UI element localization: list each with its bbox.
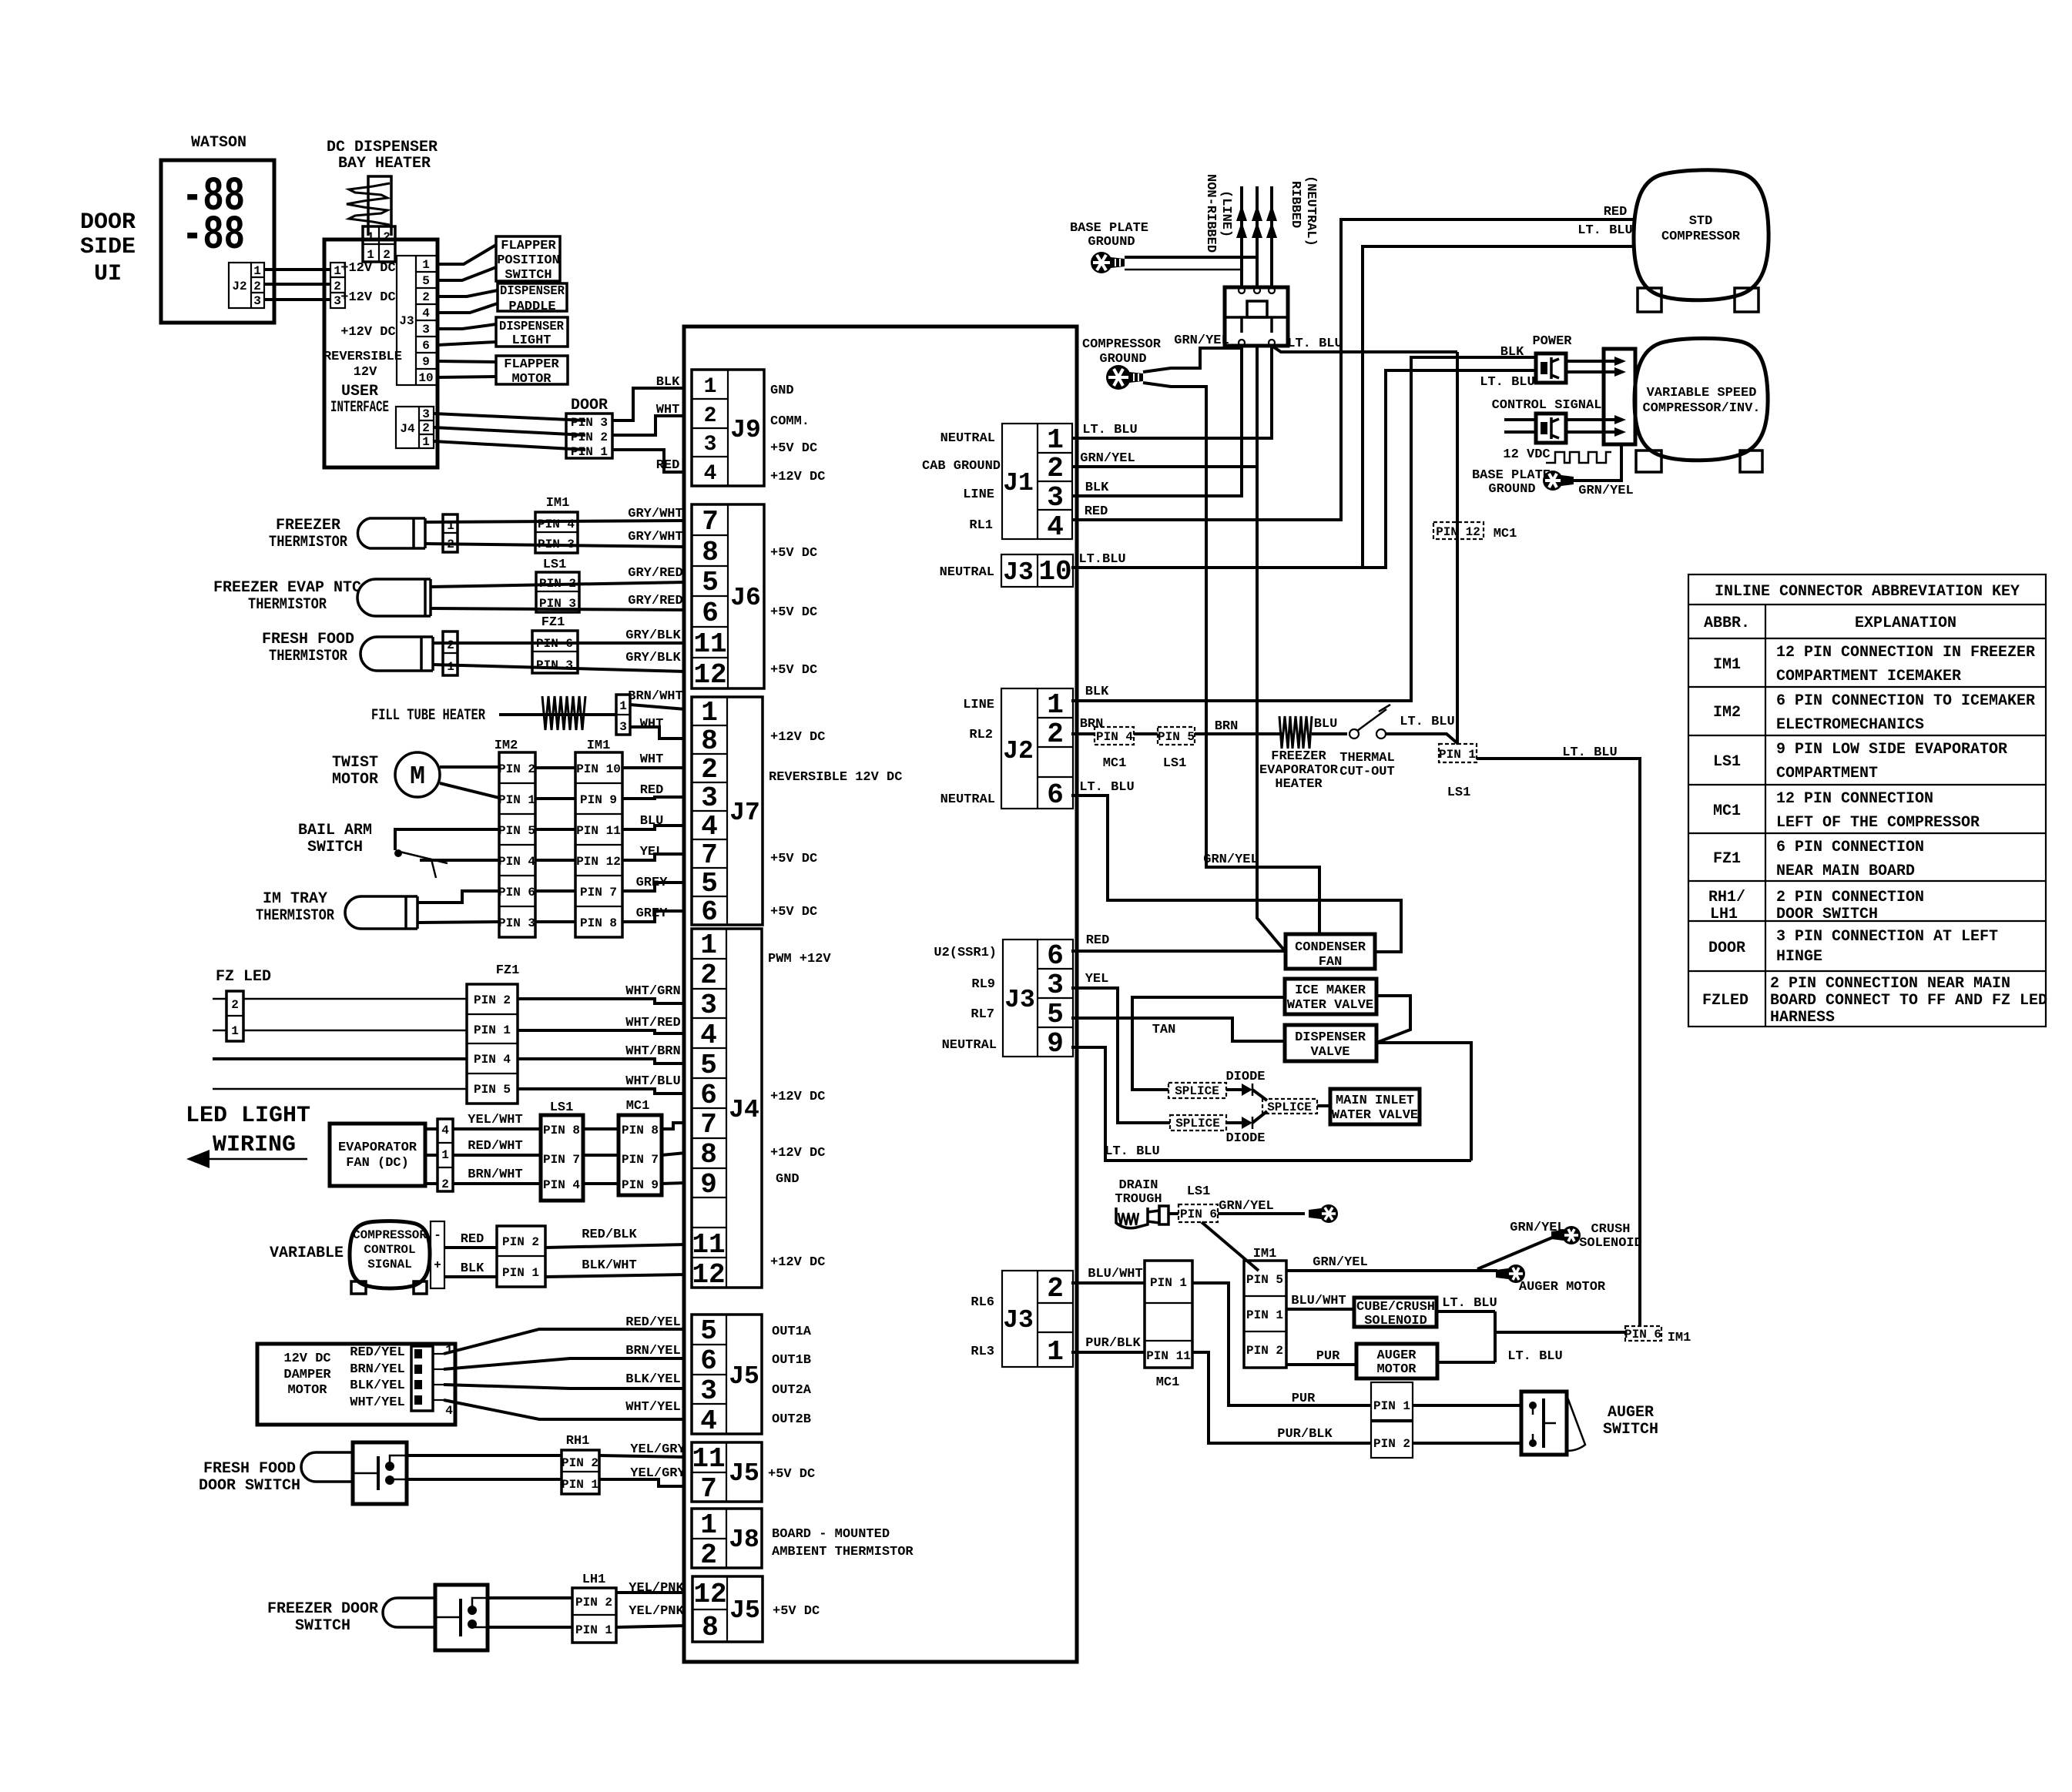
connector UI left 1-2-3 bbox=[330, 263, 345, 308]
wire BLK/WHT to J4 pin12 bbox=[545, 1274, 686, 1277]
flapper motor bbox=[496, 356, 568, 387]
wire PIN2 to auger switch bbox=[1413, 1442, 1521, 1445]
svg-text:12V DC: 12V DC bbox=[283, 1352, 330, 1366]
wire crush solenoid diagonal bbox=[1477, 1236, 1556, 1269]
svg-text:RED/BLK: RED/BLK bbox=[582, 1228, 637, 1242]
wire diode1 to splice mid bbox=[1252, 1090, 1267, 1100]
svg-text:9 PIN LOW SIDE EVAPORATOR: 9 PIN LOW SIDE EVAPORATOR bbox=[1776, 741, 2007, 759]
svg-text:FREEZER DOOR: FREEZER DOOR bbox=[267, 1600, 378, 1618]
wire YEL IM1 to J7 bbox=[622, 854, 686, 860]
svg-text:PIN 1: PIN 1 bbox=[1439, 748, 1476, 762]
diode 2 bbox=[1226, 1117, 1252, 1129]
connector -/+ bbox=[431, 1221, 444, 1288]
svg-text:DOOR: DOOR bbox=[80, 209, 136, 236]
svg-text:RL3: RL3 bbox=[971, 1345, 994, 1359]
svg-text:IM1: IM1 bbox=[587, 739, 611, 753]
diode 1 bbox=[1226, 1084, 1252, 1096]
wire IM tray to IM2 PIN3 bbox=[417, 922, 499, 923]
wire J3 pin10 to flapper motor bbox=[438, 377, 496, 377]
wire J3 pin3 to dispenser light bbox=[438, 324, 496, 329]
svg-text:RL7: RL7 bbox=[971, 1007, 994, 1022]
svg-text:11: 11 bbox=[693, 628, 726, 660]
svg-text:PIN 1: PIN 1 bbox=[1373, 1399, 1410, 1413]
svg-text:PUR/BLK: PUR/BLK bbox=[1085, 1336, 1141, 1351]
svg-text:7: 7 bbox=[701, 839, 718, 871]
connector MC1 PIN1/PIN11 bbox=[1145, 1261, 1192, 1368]
svg-text:2: 2 bbox=[701, 754, 718, 785]
svg-text:FRESH FOOD: FRESH FOOD bbox=[203, 1460, 296, 1478]
wire dispenser valve to right bus bbox=[1376, 1043, 1471, 1161]
wire power relay to inverter LT BLU bbox=[1566, 370, 1614, 373]
svg-text:+12V DC: +12V DC bbox=[340, 261, 395, 276]
svg-text:1: 1 bbox=[1047, 689, 1064, 721]
svg-text:PIN 7: PIN 7 bbox=[543, 1153, 580, 1167]
svg-text:PWM +12V: PWM +12V bbox=[768, 952, 831, 966]
svg-text:IM1: IM1 bbox=[1668, 1331, 1691, 1345]
svg-text:DIODE: DIODE bbox=[1225, 1070, 1265, 1084]
svg-text:WATER VALVE: WATER VALVE bbox=[1287, 998, 1373, 1013]
svg-text:SWITCH: SWITCH bbox=[307, 839, 363, 856]
svg-text:UI: UI bbox=[94, 261, 122, 287]
wire twist motor to IM2 PIN2 bbox=[440, 765, 499, 769]
svg-text:PIN 2: PIN 2 bbox=[539, 577, 576, 591]
svg-text:THERMISTOR: THERMISTOR bbox=[269, 534, 347, 551]
wire GRN/YEL trunk to J1 pin2 bbox=[1077, 465, 1257, 468]
ice maker water valve bbox=[1285, 979, 1376, 1014]
splice 2 bbox=[1170, 1115, 1226, 1130]
connector FZ LED 2-1 bbox=[226, 991, 243, 1041]
svg-text:RED/YEL: RED/YEL bbox=[625, 1315, 680, 1330]
control signal relay bbox=[1536, 414, 1566, 443]
svg-text:THERMISTOR: THERMISTOR bbox=[269, 648, 347, 665]
svg-text:2: 2 bbox=[1047, 718, 1064, 750]
svg-text:NON-RIBBED: NON-RIBBED bbox=[1203, 174, 1218, 253]
svg-text:PIN 2: PIN 2 bbox=[562, 1456, 598, 1470]
svg-text:TAN: TAN bbox=[1152, 1023, 1176, 1037]
svg-text:EVAPORATOR: EVAPORATOR bbox=[338, 1141, 417, 1155]
svg-text:+12V DC: +12V DC bbox=[770, 730, 825, 745]
svg-text:J5: J5 bbox=[729, 1362, 759, 1391]
svg-text:J3: J3 bbox=[1003, 558, 1034, 587]
connector PIN2/PIN1 (control signal) bbox=[497, 1226, 545, 1287]
svg-text:PADDLE: PADDLE bbox=[508, 300, 555, 314]
svg-text:CONDENSER: CONDENSER bbox=[1295, 940, 1366, 955]
svg-text:PIN 1: PIN 1 bbox=[1246, 1308, 1283, 1322]
wire twist motor to IM2 PIN1 bbox=[440, 783, 499, 798]
svg-text:ELECTROMECHANICS: ELECTROMECHANICS bbox=[1776, 716, 1924, 734]
svg-text:BOARD CONNECT TO FF AND FZ LED: BOARD CONNECT TO FF AND FZ LED bbox=[1770, 992, 2047, 1010]
wire J2 pin3 to UI bbox=[264, 298, 330, 301]
connector PIN 5 (LS1) bbox=[1158, 727, 1195, 745]
svg-text:3: 3 bbox=[422, 407, 430, 421]
svg-text:3: 3 bbox=[700, 1375, 717, 1407]
wire WHT DOOR PIN2 to J9 pin2 bbox=[612, 416, 686, 435]
svg-text:LT. BLU: LT. BLU bbox=[1480, 375, 1534, 390]
svg-text:1: 1 bbox=[367, 230, 374, 244]
svg-text:1: 1 bbox=[447, 519, 454, 533]
svg-text:J9: J9 bbox=[730, 416, 761, 444]
svg-text:BLU: BLU bbox=[640, 814, 664, 829]
svg-text:5: 5 bbox=[700, 1315, 717, 1347]
wire WHT/YEL to J5 pin4 bbox=[444, 1400, 686, 1419]
svg-text:GRY/WHT: GRY/WHT bbox=[628, 530, 682, 544]
compressor control feet bbox=[351, 1281, 366, 1294]
svg-text:(LINE): (LINE) bbox=[1219, 190, 1233, 237]
wire J3 pin2 to dispenser paddle bbox=[438, 290, 498, 296]
svg-text:FAN: FAN bbox=[1319, 955, 1343, 970]
svg-text:PIN 2: PIN 2 bbox=[1246, 1344, 1283, 1358]
connector J2 (Watson board) bbox=[229, 263, 264, 308]
wire power relay to inverter BLK bbox=[1566, 360, 1614, 363]
svg-text:+5V DC: +5V DC bbox=[770, 905, 817, 919]
wire GRN/YEL base plate to inverter bbox=[1574, 444, 1621, 481]
svg-text:ABBR.: ABBR. bbox=[1704, 615, 1750, 632]
svg-text:IM TRAY: IM TRAY bbox=[263, 890, 327, 908]
svg-text:J8: J8 bbox=[729, 1526, 759, 1554]
svg-text:PIN 6: PIN 6 bbox=[1180, 1208, 1217, 1221]
svg-text:DIODE: DIODE bbox=[1225, 1131, 1265, 1146]
wire LH1 PIN1 to J5 pin8 bbox=[616, 1626, 686, 1627]
svg-text:WHT/GRN: WHT/GRN bbox=[625, 984, 680, 999]
svg-text:J6: J6 bbox=[730, 584, 761, 612]
svg-text:IM1: IM1 bbox=[546, 496, 570, 511]
wire bus to IM1 PIN6 bbox=[1495, 1331, 1625, 1334]
thermal cut-out bbox=[1349, 705, 1390, 739]
svg-text:GROUND: GROUND bbox=[1099, 352, 1146, 367]
svg-text:RED: RED bbox=[1604, 205, 1628, 219]
connector J1 bbox=[1002, 424, 1072, 543]
svg-text:SIGNAL: SIGNAL bbox=[367, 1258, 412, 1271]
svg-text:4: 4 bbox=[422, 306, 430, 320]
svg-text:RIBBED: RIBBED bbox=[1288, 181, 1303, 228]
svg-text:FRESH FOOD: FRESH FOOD bbox=[262, 631, 354, 648]
svg-text:2: 2 bbox=[447, 538, 454, 551]
svg-text:9: 9 bbox=[422, 355, 430, 369]
svg-text:LT. BLU: LT. BLU bbox=[1400, 715, 1454, 729]
svg-text:9: 9 bbox=[700, 1169, 717, 1201]
wire GRY/WHT to J6 pin7 bbox=[425, 521, 686, 522]
svg-text:LS1: LS1 bbox=[1187, 1184, 1211, 1199]
svg-text:BRN/WHT: BRN/WHT bbox=[468, 1167, 522, 1182]
svg-text:5: 5 bbox=[422, 274, 430, 288]
svg-text:NEUTRAL: NEUTRAL bbox=[940, 431, 995, 446]
svg-text:+5V DC: +5V DC bbox=[773, 1604, 820, 1619]
wire RED/BLK to J4 pin11 bbox=[545, 1244, 686, 1248]
svg-text:2: 2 bbox=[231, 998, 239, 1012]
wire PUR IM1 PIN2 to auger motor bbox=[1286, 1363, 1356, 1366]
wire LS1 PIN8 to MC1 PIN8 bbox=[583, 1127, 619, 1130]
svg-text:WHT/BLU: WHT/BLU bbox=[625, 1074, 680, 1089]
wire BLU IM1 to J7 bbox=[622, 826, 686, 829]
svg-text:RL1: RL1 bbox=[969, 518, 993, 533]
wire control signal stub1 bbox=[1504, 418, 1536, 421]
svg-text:10: 10 bbox=[1038, 556, 1071, 588]
wire LT. BLU LS1 PIN1 to IM1 PIN6 bbox=[1477, 759, 1640, 1326]
svg-text:DOOR: DOOR bbox=[1708, 940, 1745, 957]
connector DOOR PIN3/PIN2/PIN1 bbox=[566, 414, 612, 459]
svg-text:6: 6 bbox=[701, 896, 718, 928]
wire MC1 PIN11 to PIN2 path bbox=[1192, 1352, 1371, 1443]
svg-text:THERMAL: THERMAL bbox=[1339, 751, 1394, 765]
svg-text:PIN 5: PIN 5 bbox=[1246, 1273, 1283, 1287]
svg-text:YEL: YEL bbox=[1085, 972, 1109, 986]
svg-text:FZ1: FZ1 bbox=[496, 963, 520, 978]
svg-text:2: 2 bbox=[383, 248, 391, 262]
svg-text:RH1: RH1 bbox=[566, 1434, 590, 1449]
connector PIN 2 (auger) bbox=[1371, 1422, 1413, 1458]
svg-text:WHT/YEL: WHT/YEL bbox=[625, 1400, 680, 1415]
wire FZ LED pin1 stub bbox=[213, 1030, 226, 1032]
wire LT.BLU auger motor to bus bbox=[1437, 1361, 1495, 1364]
svg-text:+5V DC: +5V DC bbox=[770, 605, 817, 620]
svg-text:RH1/: RH1/ bbox=[1708, 889, 1745, 906]
wire YEL/WHT fan to LS1 bbox=[453, 1127, 541, 1130]
wire J3 pin4 to dispenser paddle bbox=[438, 303, 498, 313]
svg-text:BLK: BLK bbox=[461, 1261, 484, 1276]
svg-text:12: 12 bbox=[692, 1259, 725, 1291]
svg-text:M: M bbox=[410, 762, 425, 791]
power cord line 1 bbox=[1240, 186, 1243, 287]
svg-text:FZLED: FZLED bbox=[1702, 992, 1748, 1010]
svg-text:BLK: BLK bbox=[656, 375, 680, 390]
svg-text:1: 1 bbox=[1047, 424, 1064, 456]
svg-text:+5V DC: +5V DC bbox=[770, 852, 817, 866]
svg-text:AUGER: AUGER bbox=[1376, 1348, 1417, 1363]
svg-text:RED: RED bbox=[461, 1232, 484, 1247]
svg-text:VARIABLE SPEED: VARIABLE SPEED bbox=[1647, 386, 1757, 400]
svg-text:HINGE: HINGE bbox=[1776, 948, 1822, 966]
svg-text:MAIN INLET: MAIN INLET bbox=[1336, 1094, 1414, 1108]
svg-text:CAB GROUND: CAB GROUND bbox=[922, 459, 1001, 474]
svg-text:WHT/RED: WHT/RED bbox=[625, 1016, 680, 1030]
wire YEL/GRY to J5 pin7 bbox=[407, 1478, 562, 1481]
user interface board bbox=[324, 239, 438, 467]
wire YEL/GRY to J5 pin11 bbox=[407, 1454, 562, 1457]
wire BLK/YEL to J5 pin3 bbox=[444, 1385, 686, 1388]
wire RED/YEL to J5 pin5 bbox=[444, 1329, 686, 1354]
svg-text:PIN 1: PIN 1 bbox=[571, 445, 608, 459]
svg-text:SWITCH: SWITCH bbox=[1603, 1421, 1658, 1439]
svg-text:LS1: LS1 bbox=[1713, 753, 1741, 771]
svg-text:FREEZER: FREEZER bbox=[1271, 749, 1326, 764]
svg-text:DISPENSER: DISPENSER bbox=[499, 320, 565, 334]
svg-text:3 PIN CONNECTION AT LEFT: 3 PIN CONNECTION AT LEFT bbox=[1776, 928, 1998, 946]
fresh food door switch bbox=[353, 1442, 407, 1504]
svg-text:BLK/WHT: BLK/WHT bbox=[582, 1258, 636, 1273]
power cord line 3 bbox=[1270, 186, 1273, 287]
svg-text:DOOR SWITCH: DOOR SWITCH bbox=[199, 1477, 300, 1495]
svg-text:WATSON: WATSON bbox=[191, 134, 246, 152]
svg-text:1: 1 bbox=[422, 435, 430, 449]
svg-text:LS1: LS1 bbox=[550, 1100, 574, 1115]
wire trough to PIN6 bbox=[1168, 1212, 1178, 1215]
inverter connector bbox=[1604, 349, 1635, 444]
wire IM2 row2 to IM1 bbox=[535, 797, 575, 800]
STD compressor bbox=[1634, 170, 1769, 300]
svg-text:MC1: MC1 bbox=[626, 1099, 650, 1114]
svg-text:VALVE: VALVE bbox=[1310, 1045, 1349, 1060]
svg-text:SPLICE: SPLICE bbox=[1267, 1100, 1312, 1114]
svg-text:2: 2 bbox=[441, 1177, 449, 1191]
svg-text:BASE PLATE: BASE PLATE bbox=[1472, 468, 1551, 483]
crush solenoid ground lug bbox=[1551, 1226, 1581, 1244]
svg-text:DC DISPENSER: DC DISPENSER bbox=[327, 139, 438, 156]
twist motor M bbox=[395, 752, 440, 797]
wire RED/WHT fan to LS1 bbox=[453, 1154, 541, 1157]
svg-text:BLU/WHT: BLU/WHT bbox=[1088, 1267, 1142, 1281]
wire TAN J3 pin5 to dispenser valve bbox=[1077, 1018, 1285, 1041]
svg-text:PIN 3: PIN 3 bbox=[539, 597, 576, 611]
svg-text:GRY/RED: GRY/RED bbox=[628, 566, 682, 581]
wire GRN/YEL IM1 PIN5 to auger motor ground bbox=[1286, 1269, 1497, 1272]
svg-text:YEL: YEL bbox=[640, 845, 664, 859]
wire BRN/WHT fan to LS1 bbox=[453, 1182, 541, 1185]
wire FZ LED pin2 stub bbox=[213, 998, 226, 1000]
svg-text:WHT: WHT bbox=[656, 403, 680, 417]
wire J3 pin6 to dispenser light bbox=[438, 342, 496, 345]
svg-text:FREEZER: FREEZER bbox=[276, 517, 340, 534]
cube/crush solenoid bbox=[1354, 1298, 1437, 1328]
svg-text:+12V DC: +12V DC bbox=[770, 1090, 825, 1104]
wire diode2 to splice mid bbox=[1252, 1111, 1267, 1123]
svg-text:J3: J3 bbox=[399, 314, 414, 328]
connector J2 (main) bbox=[1001, 688, 1073, 811]
base plate ground lug (left) bbox=[1091, 252, 1125, 273]
svg-text:WHT: WHT bbox=[640, 717, 664, 732]
svg-text:THERMISTOR: THERMISTOR bbox=[256, 907, 334, 925]
svg-text:RL2: RL2 bbox=[969, 728, 993, 742]
svg-text:2: 2 bbox=[1047, 453, 1064, 484]
DC dispenser bay heater element bbox=[347, 176, 391, 236]
svg-text:EVAPORATOR: EVAPORATOR bbox=[1259, 763, 1339, 778]
connector fill tube 1-3 bbox=[616, 695, 630, 735]
svg-text:PIN 6: PIN 6 bbox=[536, 637, 573, 651]
svg-text:10: 10 bbox=[418, 371, 433, 385]
svg-text:FZ1: FZ1 bbox=[1713, 850, 1741, 868]
svg-text:YEL/PNK: YEL/PNK bbox=[629, 1581, 684, 1596]
wire PUR/BLK J3 pin1 to MC1 PIN11 bbox=[1077, 1351, 1145, 1354]
svg-text:OUT2A: OUT2A bbox=[772, 1383, 812, 1398]
svg-text:GRY/BLK: GRY/BLK bbox=[625, 628, 681, 643]
svg-text:PIN 9: PIN 9 bbox=[580, 793, 617, 807]
svg-text:LT. BLU: LT. BLU bbox=[1105, 1144, 1159, 1159]
evaporator fan (DC) bbox=[330, 1124, 425, 1186]
svg-text:CUT-OUT: CUT-OUT bbox=[1339, 765, 1394, 779]
svg-text:12: 12 bbox=[693, 659, 726, 691]
svg-text:BLK/YEL: BLK/YEL bbox=[625, 1372, 680, 1387]
wire IM2 row1 to IM1 bbox=[535, 766, 575, 769]
wire RH1 PIN2 to board bbox=[599, 1455, 686, 1457]
wire WHT/BRN FZ1 to J4 bbox=[518, 1059, 686, 1063]
auger motor ground lug bbox=[1496, 1264, 1525, 1283]
svg-text:AUGER: AUGER bbox=[1608, 1404, 1654, 1422]
wire J3 pin5 to flapper position switch bbox=[438, 267, 496, 280]
svg-text:LT. BLU: LT. BLU bbox=[1507, 1349, 1562, 1364]
svg-text:8: 8 bbox=[702, 537, 719, 568]
svg-text:RL6: RL6 bbox=[971, 1295, 994, 1310]
drain ground lug bbox=[1309, 1204, 1338, 1223]
svg-text:PIN 12: PIN 12 bbox=[1436, 525, 1480, 539]
wire WHT IM1 to J7 bbox=[622, 766, 686, 769]
connector PIN 12 (MC1) bbox=[1433, 522, 1484, 539]
connector J5 fz bbox=[692, 1576, 763, 1643]
svg-text:4: 4 bbox=[1047, 511, 1064, 543]
svg-text:J2: J2 bbox=[232, 280, 246, 293]
svg-text:PIN 9: PIN 9 bbox=[622, 1178, 659, 1192]
svg-text:J7: J7 bbox=[729, 799, 760, 827]
svg-text:PIN 3: PIN 3 bbox=[571, 416, 608, 430]
svg-text:MC1: MC1 bbox=[1713, 802, 1741, 820]
svg-text:+5V DC: +5V DC bbox=[770, 441, 817, 456]
svg-text:2: 2 bbox=[253, 280, 261, 293]
freezer evap thermistor bulb bbox=[357, 579, 431, 616]
svg-text:YEL/WHT: YEL/WHT bbox=[468, 1113, 522, 1127]
wire RH1 PIN1 to board bbox=[599, 1479, 686, 1486]
svg-text:PIN 4: PIN 4 bbox=[538, 518, 575, 531]
wire control relay to inverter 1 bbox=[1566, 418, 1614, 421]
svg-text:BLK: BLK bbox=[1085, 481, 1109, 495]
fresh food thermistor bulb bbox=[360, 637, 433, 671]
svg-text:(NEUTRAL): (NEUTRAL) bbox=[1303, 176, 1318, 246]
svg-text:PIN 1: PIN 1 bbox=[562, 1478, 598, 1492]
svg-text:OUT1A: OUT1A bbox=[772, 1325, 812, 1339]
wire YEL/PNK to LH1 PIN1 bbox=[488, 1626, 572, 1629]
wire GRY/RED to J6 pin5 bbox=[431, 582, 686, 587]
svg-text:LIGHT: LIGHT bbox=[511, 333, 551, 348]
svg-text:VARIABLE: VARIABLE bbox=[270, 1244, 344, 1262]
variable compressor feet bbox=[1636, 451, 1661, 472]
wire GRY/RED to J6 pin6 bbox=[431, 608, 686, 610]
svg-text:TWIST: TWIST bbox=[332, 754, 378, 772]
connector J4 bbox=[692, 929, 762, 1291]
wire WHT/BLU FZ1 to J4 bbox=[518, 1089, 686, 1094]
svg-text:8: 8 bbox=[701, 725, 718, 757]
display board WATSON bbox=[161, 160, 274, 323]
svg-text:+5V DC: +5V DC bbox=[768, 1467, 815, 1482]
svg-text:PUR: PUR bbox=[1292, 1392, 1316, 1406]
svg-text:PIN 4: PIN 4 bbox=[474, 1053, 511, 1067]
wire GRN/YEL PIN6 to lug bbox=[1218, 1212, 1305, 1215]
svg-text:MC1: MC1 bbox=[1156, 1375, 1180, 1390]
condenser fan bbox=[1286, 934, 1375, 970]
svg-text:4: 4 bbox=[445, 1404, 453, 1418]
svg-text:2: 2 bbox=[447, 638, 454, 652]
svg-text:WHT/BRN: WHT/BRN bbox=[625, 1044, 680, 1059]
svg-text:8: 8 bbox=[702, 1612, 719, 1643]
svg-text:GRN/YEL: GRN/YEL bbox=[1219, 1199, 1273, 1214]
wire ice maker valve left bbox=[1132, 997, 1285, 1090]
svg-text:PIN 8: PIN 8 bbox=[580, 916, 617, 930]
svg-text:6: 6 bbox=[422, 339, 430, 353]
svg-text:PIN 7: PIN 7 bbox=[622, 1153, 659, 1167]
power relay bbox=[1536, 353, 1566, 383]
svg-text:+12V DC: +12V DC bbox=[340, 325, 395, 340]
svg-text:OUT1B: OUT1B bbox=[772, 1353, 811, 1368]
svg-text:J1: J1 bbox=[1003, 469, 1034, 497]
connector J3 (RL9/RL7) bbox=[1003, 940, 1073, 1060]
wire MC1 PIN9 to J4 pin9 bbox=[662, 1183, 686, 1184]
svg-text:CONTROL SIGNAL: CONTROL SIGNAL bbox=[1492, 398, 1602, 413]
svg-text:WIRING: WIRING bbox=[213, 1132, 296, 1158]
svg-text:+5V DC: +5V DC bbox=[770, 663, 817, 678]
wire LT.BLU J2 pin6 to condenser fan bbox=[1077, 796, 1401, 952]
svg-text:PIN 11: PIN 11 bbox=[1146, 1349, 1191, 1363]
svg-text:SPLICE: SPLICE bbox=[1175, 1117, 1220, 1130]
svg-text:6: 6 bbox=[1047, 779, 1064, 811]
svg-text:1: 1 bbox=[619, 699, 627, 713]
wire BLK trunk to J1 pin3 bbox=[1077, 346, 1242, 496]
arrow LED light wiring bbox=[186, 1150, 307, 1168]
